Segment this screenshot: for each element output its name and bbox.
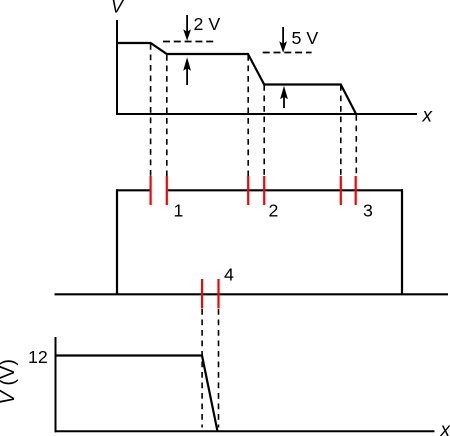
svg-text:5 V: 5 V [292,28,319,48]
svg-text:x: x [422,105,434,126]
dashed drop line at x=150 (battery 1 left) [150,44,152,176]
2 V level dashed line [163,41,214,43]
svg-text:4: 4 [224,265,234,285]
svg-text:x: x [440,420,450,436]
svg-text:V: V [111,0,125,17]
svg-text:1: 1 [174,201,184,221]
wire: circuit loop left side [116,189,118,294]
potential curve (top graph) [117,43,356,115]
wire: circuit loop top side, left segment [116,189,150,191]
potential curve (bottom graph) [56,356,218,432]
svg-text:12: 12 [28,347,48,367]
5 V down arrow [279,27,287,53]
dashed alignment line below battery 4 (left) [201,309,203,428]
battery 1 [151,176,167,205]
x axis (top graph) [116,113,417,115]
battery 4 [202,279,218,309]
dashed drop line at x=248 (battery 2 left) [247,55,249,176]
2 V down arrow [183,15,191,41]
wire: circuit loop top side, right segment [168,189,403,191]
5 V level dashed line [263,52,312,54]
svg-text:2: 2 [269,201,279,221]
dashed drop line at x=356 (battery 3 right) [355,115,357,176]
5 V up arrow [280,86,288,108]
2 V up arrow [183,57,191,85]
battery 2 [248,176,264,205]
dashed alignment line below battery 4 (right) [218,309,220,428]
battery 3 [341,176,356,205]
wire: long bottom rail [55,293,449,295]
x axis (bottom graph) [55,430,435,432]
wire: circuit loop right side [401,189,403,294]
dashed drop line at x=167 (battery 1 right) [166,55,168,176]
V axis (bottom graph) [55,337,57,432]
V axis (top graph) [116,20,118,115]
svg-text:2 V: 2 V [194,14,221,34]
dashed drop line at x=264 (battery 2 right) [263,85,265,176]
svg-text:3: 3 [363,201,373,221]
svg-text:V (V): V (V) [0,359,19,405]
dashed drop line at x=341 (battery 3 left) [340,85,342,176]
